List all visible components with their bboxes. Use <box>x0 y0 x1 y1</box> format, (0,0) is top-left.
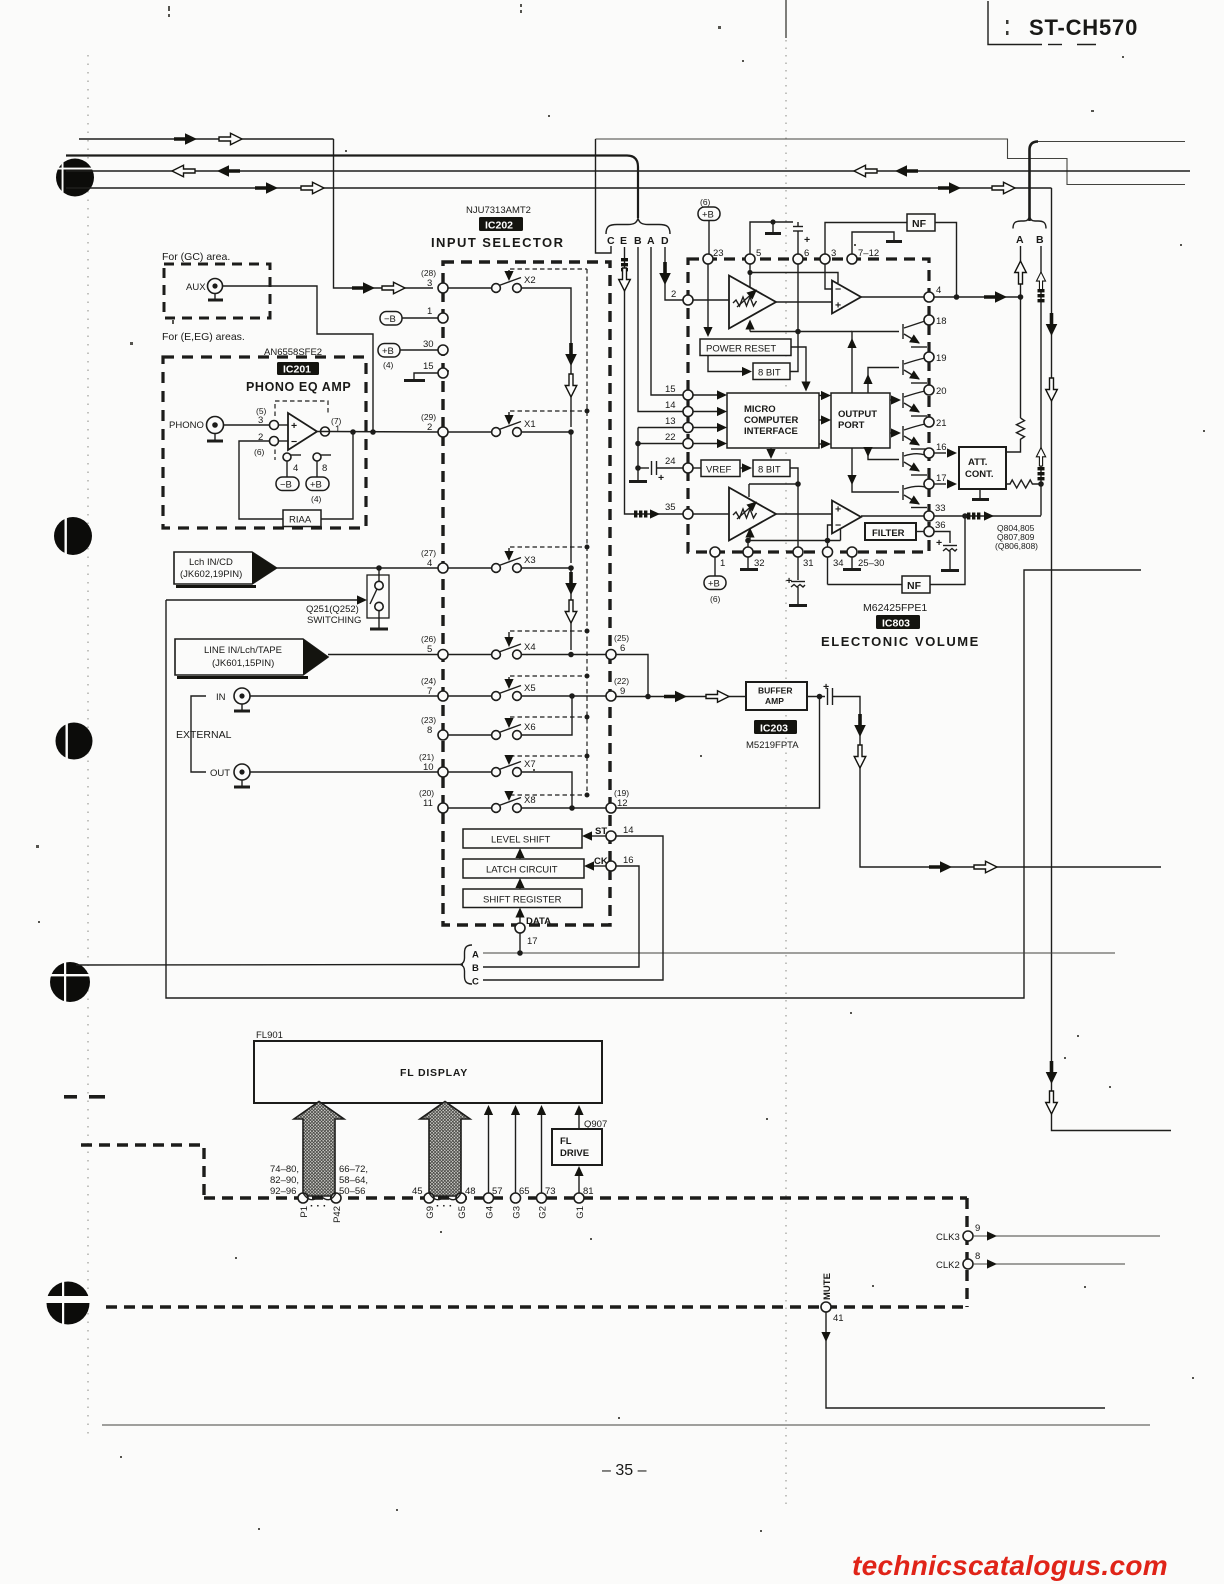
arrow black pin4 out <box>984 291 1007 303</box>
svg-text:35: 35 <box>665 502 676 513</box>
wire DATA down to A line <box>519 933 521 953</box>
switch X8 <box>419 788 606 813</box>
svg-text:19: 19 <box>936 353 947 364</box>
svg-text:FILTER: FILTER <box>872 528 905 539</box>
wire pins 7-12 to ground <box>852 232 894 254</box>
svg-text:POWER RESET: POWER RESET <box>706 344 776 355</box>
wire pin3 to op-amp minus <box>825 264 832 289</box>
op-amp U IC201 <box>288 413 317 450</box>
arrow open down on branch <box>1046 378 1058 401</box>
svg-text:+: + <box>835 504 841 516</box>
svg-text:17: 17 <box>936 473 947 484</box>
svg-text:technicscatalogus.com: technicscatalogus.com <box>852 1550 1168 1581</box>
wire AUX to phono output node <box>222 286 373 432</box>
svg-text:73: 73 <box>545 1186 556 1197</box>
arrow into Q251 switching <box>357 595 367 604</box>
svg-text:PHONO: PHONO <box>169 420 204 431</box>
pin G2 wire 73 <box>537 1193 547 1203</box>
svg-text:Lch IN/CD: Lch IN/CD <box>189 557 233 568</box>
registration mark 5 <box>44 1281 94 1325</box>
wire NF bottom loop <box>828 584 903 586</box>
supply +B oval <box>316 461 318 477</box>
arrow black on bus1 <box>174 133 197 145</box>
svg-text:For (GC) area.: For (GC) area. <box>162 251 230 263</box>
box LINE IN/Lch/TAPE <box>175 639 328 678</box>
label IC203 <box>754 720 797 734</box>
svg-text:(20): (20) <box>419 788 434 798</box>
wire op-amp output to IC202 pin2 <box>317 431 438 434</box>
wire op-amp2 out to pin33 <box>861 515 924 517</box>
arrow open AUX feed <box>382 282 405 294</box>
svg-text:18: 18 <box>936 316 947 327</box>
svg-text:8 BIT: 8 BIT <box>758 465 781 476</box>
op-amp U IC803b <box>832 501 861 534</box>
node hatch squares pin35 feed <box>634 511 647 518</box>
svg-text:CLK3: CLK3 <box>936 1232 960 1243</box>
svg-text:+: + <box>936 537 942 549</box>
wire A line to IC803 pin15 <box>651 247 683 395</box>
transistor Q T4 <box>903 424 927 449</box>
svg-text:15: 15 <box>665 384 676 395</box>
svg-text:ATT.: ATT. <box>968 457 987 468</box>
wire pin16 to ATT CONT <box>934 452 946 454</box>
arrow black on bus4 <box>255 182 278 194</box>
registration mark 3 <box>56 722 93 761</box>
svg-text:+B: +B <box>382 346 394 357</box>
svg-text:48: 48 <box>465 1186 476 1197</box>
svg-text:+B: +B <box>708 579 720 590</box>
resistor ATT to B line <box>1005 480 1041 488</box>
arrow black down on D line <box>659 262 671 285</box>
svg-text:NF: NF <box>907 580 922 592</box>
pin 32 bottom <box>743 547 753 557</box>
wire pin35 into attenuator2 <box>693 513 729 515</box>
svg-text:BUFFER: BUFFER <box>758 686 792 696</box>
svg-text:DATA: DATA <box>526 916 551 927</box>
wire op-amp1 out to pin4 <box>861 296 924 298</box>
svg-text:(6): (6) <box>700 197 711 207</box>
wire pin9 to buffer amp <box>616 696 746 698</box>
wire B up to CK pin <box>483 866 639 967</box>
wire Q251 control feed from border <box>166 599 357 601</box>
svg-text:MICRO: MICRO <box>744 404 776 415</box>
svg-text:(27): (27) <box>421 548 436 558</box>
pin G3 wire 65 <box>511 1193 521 1203</box>
arrow black AUX feed <box>352 282 375 294</box>
arrow black left on bus3 <box>217 165 240 177</box>
arrow open down buffer out <box>854 745 866 768</box>
svg-text:3: 3 <box>258 415 263 426</box>
pin 33 <box>924 511 934 521</box>
wire D line to IC803 pin2 <box>665 247 683 300</box>
svg-text:C: C <box>472 977 479 988</box>
svg-text:−: − <box>291 436 297 448</box>
svg-text:(Q806,808): (Q806,808) <box>995 541 1038 551</box>
wire pin17 to ATT CONT <box>934 483 946 485</box>
node CEBAD bundle brace <box>606 219 670 235</box>
wire B line down to pin33 output <box>1040 246 1042 516</box>
svg-text:OUT: OUT <box>210 768 230 779</box>
box LEVEL SHIFT <box>463 829 582 848</box>
svg-text:IC803: IC803 <box>882 618 910 630</box>
dashed connector right edge <box>965 1198 968 1307</box>
wire A/B bundle thick vertical top right <box>1030 142 1039 222</box>
svg-text:1: 1 <box>720 558 725 569</box>
svg-text:Q251(Q252): Q251(Q252) <box>306 604 359 615</box>
arrow open left on bus3 right group <box>854 165 877 177</box>
wire OUTPUT PORT down rail to T5 <box>868 448 899 460</box>
svg-text:(22): (22) <box>614 676 629 686</box>
arrow black right main out <box>929 861 952 873</box>
svg-text:(JK601,15PIN): (JK601,15PIN) <box>212 658 274 669</box>
transistor Q T5 <box>903 452 927 475</box>
svg-text:+: + <box>658 472 664 484</box>
svg-text:FL901: FL901 <box>256 1030 283 1041</box>
svg-text:VREF: VREF <box>706 465 732 476</box>
capacitor pin24 <box>638 467 649 469</box>
dashed connector bus bottom <box>106 1305 967 1308</box>
wire B line to IC803 pin14 <box>638 247 683 412</box>
svg-text:LEVEL SHIFT: LEVEL SHIFT <box>491 835 551 846</box>
box NF top <box>907 214 935 231</box>
pin G5 <box>456 1193 466 1203</box>
svg-text:B: B <box>1036 234 1044 246</box>
svg-text:8 BIT: 8 BIT <box>758 368 781 379</box>
arrow open on bus1 <box>219 133 242 145</box>
svg-text:74–80,: 74–80, <box>270 1164 299 1175</box>
svg-text:66–72,: 66–72, <box>339 1164 368 1175</box>
box ATT. CONT. <box>959 447 1006 489</box>
arrow open down on branch lower <box>1046 1091 1058 1114</box>
box POWER RESET <box>700 339 791 356</box>
svg-text:1: 1 <box>335 424 340 435</box>
svg-text:(23): (23) <box>421 715 436 725</box>
svg-text:G2: G2 <box>538 1206 549 1219</box>
pin 4 of IC201 <box>283 453 291 461</box>
pin P42 <box>331 1193 341 1203</box>
switch X1 <box>421 409 590 564</box>
label IC201 <box>277 362 319 375</box>
arrow open on bus4 right group <box>992 182 1015 194</box>
svg-text:+: + <box>804 234 810 246</box>
pin G1 wire 81 <box>574 1193 584 1203</box>
svg-text:23: 23 <box>713 248 724 259</box>
svg-text:X2: X2 <box>524 275 536 286</box>
box MICRO COMPUTER INTERFACE <box>727 393 819 448</box>
svg-text:(4): (4) <box>383 360 394 370</box>
arrow pin23 into POWER RESET <box>707 264 709 330</box>
switch X4 <box>421 629 606 660</box>
node hatch squares on E line <box>621 258 628 271</box>
attenuator 1 <box>729 276 776 329</box>
svg-text:45: 45 <box>412 1186 423 1197</box>
wire 8BIT up to bias rail <box>790 332 798 372</box>
svg-text:+: + <box>835 300 841 312</box>
wire pin2 into attenuator1 <box>693 299 729 301</box>
svg-text:5: 5 <box>756 248 761 259</box>
svg-text:(21): (21) <box>419 752 434 762</box>
dashed box E,EG area <box>163 357 366 528</box>
svg-text:16: 16 <box>623 855 634 866</box>
svg-text:7: 7 <box>427 686 432 697</box>
wire POWER RESET to MICRO COMPUTER <box>791 347 806 384</box>
svg-text:NJU7313AMT2: NJU7313AMT2 <box>466 205 531 216</box>
wire NF to pin4 line <box>935 223 957 298</box>
crop dashes left <box>64 1095 77 1099</box>
transistor Q T1 <box>903 321 927 347</box>
wire OUT to pin10 <box>250 771 438 773</box>
svg-text:LATCH CIRCUIT: LATCH CIRCUIT <box>486 865 558 876</box>
svg-text:6: 6 <box>620 643 625 654</box>
wire bus line 1 left segment <box>79 138 334 140</box>
capacitor output coupling <box>827 688 829 705</box>
wire vertical from bus1 down to IC202 pin3 row <box>334 139 434 288</box>
svg-text:(JK602,19PIN): (JK602,19PIN) <box>180 569 242 580</box>
svg-text:50–56: 50–56 <box>339 1186 365 1197</box>
svg-text:4: 4 <box>936 285 941 296</box>
svg-text:For (E,EG) areas.: For (E,EG) areas. <box>162 331 245 343</box>
wire pin6 to buffer input junction <box>616 655 648 697</box>
arrow SHIFT REG to LATCH <box>519 883 521 889</box>
svg-text:G3: G3 <box>512 1206 523 1219</box>
svg-text:(24): (24) <box>421 676 436 686</box>
svg-text:(26): (26) <box>421 634 436 644</box>
svg-text:36: 36 <box>935 520 946 531</box>
svg-text:2: 2 <box>671 289 676 300</box>
pin 8 of IC201 <box>313 453 321 461</box>
svg-text:X6: X6 <box>524 722 536 733</box>
RIAA box <box>283 510 321 527</box>
svg-text:X7: X7 <box>524 759 536 770</box>
wire attenuator1 to op-amp1 plus <box>776 301 832 303</box>
svg-text:32: 32 <box>754 558 765 569</box>
switch X3 <box>421 545 590 651</box>
svg-text:82–90,: 82–90, <box>270 1175 299 1186</box>
svg-text:14: 14 <box>623 825 634 836</box>
svg-text:INPUT SELECTOR: INPUT SELECTOR <box>431 235 564 250</box>
page centre fold dotted rule <box>785 40 787 1508</box>
svg-text:ELECTONIC VOLUME: ELECTONIC VOLUME <box>821 634 980 649</box>
pin 23 <box>703 254 713 264</box>
box FILTER <box>865 523 916 540</box>
box 8 BIT first <box>753 363 790 380</box>
svg-text:92–96: 92–96 <box>270 1186 296 1197</box>
svg-text:CLK2: CLK2 <box>936 1260 960 1271</box>
box LATCH CIRCUIT <box>463 859 584 878</box>
svg-text:9: 9 <box>975 1223 980 1234</box>
node junction B resistor <box>1038 481 1044 487</box>
wire OUTPUT PORT to T4 <box>890 432 894 434</box>
big hatched arrow P segments <box>294 1102 344 1197</box>
svg-text:2: 2 <box>427 422 432 433</box>
svg-text:9: 9 <box>620 686 625 697</box>
box OUTPUT PORT <box>831 393 890 448</box>
pin 20 <box>924 385 934 395</box>
svg-text:X5: X5 <box>524 683 536 694</box>
wire PHONO to op-amp pin3 <box>223 424 269 426</box>
svg-text:B: B <box>472 963 479 974</box>
pin 13 wire to MCI <box>683 423 693 433</box>
box Lch IN/CD <box>174 552 277 587</box>
svg-text:8: 8 <box>427 725 432 736</box>
svg-text:G9: G9 <box>425 1206 436 1219</box>
wire 8BIT2 to pin31 rail <box>790 468 798 547</box>
margin dotted rule left <box>87 55 89 1435</box>
svg-text:21: 21 <box>936 418 947 429</box>
svg-text:EXTERNAL: EXTERNAL <box>176 729 232 741</box>
svg-text:34: 34 <box>833 558 844 569</box>
pin 19 <box>924 352 934 362</box>
big hatched arrow G segments <box>420 1102 470 1197</box>
svg-text:31: 31 <box>803 558 814 569</box>
registration mark 2 <box>54 516 92 556</box>
svg-text:(4): (4) <box>311 494 322 504</box>
wire pin4 output to A line <box>934 296 1021 298</box>
wire external bracket <box>191 696 206 772</box>
wire OUTPUT PORT up rail to T1 <box>852 332 899 394</box>
pin 21 <box>924 417 934 427</box>
transistor Q T2 <box>903 358 927 383</box>
svg-text:13: 13 <box>665 416 676 427</box>
svg-text:RIAA: RIAA <box>289 515 312 526</box>
svg-text:65: 65 <box>519 1186 530 1197</box>
wire pin5 into attenuator1 <box>749 264 751 287</box>
svg-text:NF: NF <box>912 218 927 230</box>
node A/B brace <box>1013 217 1046 229</box>
wire pin36 to capacitor <box>934 532 950 544</box>
arrow LATCH to LEVEL SHIFT <box>519 853 521 859</box>
wire pin6 down to bias rail <box>797 264 799 332</box>
svg-text:(25): (25) <box>614 633 629 643</box>
svg-text:M62425FPE1: M62425FPE1 <box>863 602 927 614</box>
IC803 dashed box <box>688 259 929 552</box>
svg-text:−B: −B <box>280 480 292 491</box>
arrow black on bus4 right group <box>938 182 961 194</box>
wire OUTPUT PORT down rail to T6 <box>852 448 899 492</box>
pin 14 wire to MCI <box>683 407 693 417</box>
box SHIFT REGISTER <box>463 889 582 908</box>
label IC803 <box>876 615 920 629</box>
wire pin5 rail with ground <box>750 222 793 254</box>
svg-text:COMPUTER: COMPUTER <box>744 415 799 426</box>
wire A line right to IC803 pin4 junction <box>1020 246 1022 418</box>
svg-text:A: A <box>647 235 655 247</box>
ground PHONO <box>214 433 216 441</box>
wire bus line 2 thick into CEBAD bundle <box>66 156 638 219</box>
supply -B oval to pin1 <box>380 312 402 326</box>
registration mark 4 <box>48 961 92 1003</box>
IC202 dashed box <box>443 262 610 925</box>
pin 3 <box>820 254 830 264</box>
svg-text:B: B <box>634 235 642 247</box>
arrow black down buffer out <box>854 714 866 737</box>
svg-text:5: 5 <box>427 644 432 655</box>
box BUFFER AMP <box>746 682 807 710</box>
wire bottom rule <box>102 1424 1150 1426</box>
svg-text:X8: X8 <box>524 795 536 806</box>
svg-text:+: + <box>823 681 829 693</box>
title bracket <box>988 1 1042 45</box>
pin G4 wire 57 <box>484 1193 494 1203</box>
arrow open left on bus3 <box>172 165 195 177</box>
svg-text:PORT: PORT <box>838 420 865 431</box>
wire E line to IC803 pin35 <box>625 247 684 514</box>
arrow black left on bus3 right group <box>895 165 918 177</box>
resistor on A line <box>1005 418 1025 452</box>
svg-text:(6): (6) <box>710 594 721 604</box>
svg-text:+B: +B <box>310 480 322 491</box>
label IC202 <box>479 217 523 231</box>
box FL DRIVE <box>552 1129 602 1165</box>
arrow open up on B line (lower) <box>1036 448 1045 466</box>
svg-text:ST-CH570: ST-CH570 <box>1029 15 1138 40</box>
wire OUTPUT PORT up rail to T2 <box>868 368 899 394</box>
arrow open up on A line <box>1015 261 1027 284</box>
arrow black down on branch <box>1046 313 1058 336</box>
box NF bottom <box>902 576 930 593</box>
switch X7 <box>419 752 590 808</box>
svg-text:3: 3 <box>831 248 836 259</box>
svg-text:41: 41 <box>833 1313 844 1324</box>
wire OUTPUT PORT to T3 <box>890 399 894 401</box>
svg-text:X4: X4 <box>524 642 536 653</box>
RIAA feedback loop wire <box>321 432 353 519</box>
arrow open up on B line (top) <box>1036 272 1045 290</box>
pin 17 <box>924 479 934 489</box>
switch X6 <box>421 696 590 740</box>
arrow black buffer input <box>664 691 687 703</box>
svg-text:20: 20 <box>936 386 947 397</box>
svg-text:(6): (6) <box>254 447 265 457</box>
svg-text:G1: G1 <box>575 1206 586 1219</box>
wire Lch to pin4 <box>277 567 439 569</box>
wire line4 branch vertical right <box>1052 188 1172 1131</box>
svg-text:4: 4 <box>293 463 298 474</box>
svg-text:+: + <box>291 420 297 432</box>
svg-text:P1: P1 <box>299 1206 310 1218</box>
pin 34 bottom <box>823 547 833 557</box>
svg-text:57: 57 <box>492 1186 503 1197</box>
svg-text:CONT.: CONT. <box>965 469 994 480</box>
svg-text:10: 10 <box>423 762 434 773</box>
node hatch squares pin33 out <box>967 513 980 520</box>
svg-text:15: 15 <box>423 361 434 372</box>
svg-text:· · ·: · · · <box>310 1200 326 1212</box>
arrow MCI down to 8BIT2 <box>770 448 772 453</box>
svg-text:E: E <box>620 235 627 247</box>
wire main area border left/bottom/right <box>166 570 1141 998</box>
svg-text:24: 24 <box>665 456 676 467</box>
svg-text:(28): (28) <box>421 268 436 278</box>
dashed box IC201 inner <box>275 401 328 416</box>
ground ATT CONT <box>979 489 981 499</box>
wire C up to ST pin <box>483 836 663 980</box>
svg-text:8: 8 <box>322 463 327 474</box>
svg-text:16: 16 <box>936 442 947 453</box>
pin 7-12 <box>847 254 857 264</box>
transistor Q T3 <box>903 391 927 416</box>
arrow open buffer input <box>706 691 729 703</box>
svg-text:−: − <box>835 284 841 296</box>
attenuator 2 <box>729 488 776 541</box>
supply -B oval <box>286 461 288 477</box>
svg-text:6: 6 <box>804 248 809 259</box>
svg-text:58–64,: 58–64, <box>339 1175 368 1186</box>
pin 16 <box>924 448 934 458</box>
svg-text:INTERFACE: INTERFACE <box>744 426 798 437</box>
pin 15 wire to MCI <box>683 390 693 400</box>
wire A to DATA junction <box>483 952 1115 954</box>
